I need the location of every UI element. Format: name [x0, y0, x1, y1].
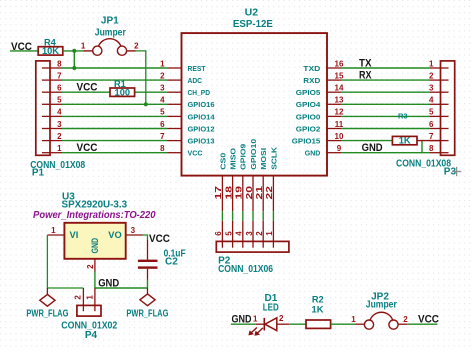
- svg-text:3: 3: [429, 84, 434, 93]
- svg-text:4: 4: [235, 231, 244, 236]
- svg-text:GPIO9: GPIO9: [239, 144, 248, 170]
- junction: [72, 66, 76, 70]
- svg-text:2: 2: [255, 231, 264, 236]
- wire: [94, 272, 96, 289]
- svg-text:GPIO13: GPIO13: [188, 137, 215, 146]
- svg-text:1K: 1K: [312, 304, 324, 314]
- P1 pin numbers: [57, 59, 62, 153]
- U2 right pins 16-9: [292, 59, 344, 157]
- svg-text:10K: 10K: [42, 46, 59, 56]
- svg-text:5: 5: [160, 108, 165, 117]
- wire: [62, 115, 167, 117]
- svg-text:Jumper: Jumper: [366, 299, 397, 310]
- wire: [421, 141, 423, 153]
- svg-text:GPIO12: GPIO12: [188, 124, 215, 133]
- svg-text:5: 5: [224, 231, 233, 236]
- svg-text:3: 3: [245, 231, 254, 236]
- wire: [252, 211, 254, 221]
- LED arrows: [248, 328, 263, 336]
- connector P3 reference: [396, 159, 456, 178]
- svg-text:VCC: VCC: [149, 233, 170, 245]
- svg-text:Jumper: Jumper: [95, 27, 126, 38]
- svg-text:2: 2: [57, 132, 62, 141]
- svg-text:VCC: VCC: [77, 142, 98, 154]
- svg-text:ADC: ADC: [188, 76, 203, 85]
- svg-text:CS0: CS0: [218, 153, 227, 170]
- svg-text:18: 18: [224, 185, 233, 199]
- svg-text:1: 1: [81, 42, 86, 51]
- U2 bottom pins 17-22: [214, 139, 278, 211]
- svg-text:5: 5: [429, 108, 434, 117]
- svg-text:VCC: VCC: [418, 313, 439, 325]
- wire: [341, 115, 429, 117]
- U2 left pins 1-8: [160, 59, 215, 157]
- wire: [407, 323, 437, 325]
- svg-text:2: 2: [279, 314, 284, 323]
- svg-text:TX: TX: [359, 57, 372, 69]
- svg-text:3: 3: [160, 84, 165, 93]
- wire: [341, 79, 429, 81]
- svg-text:SCLK: SCLK: [269, 147, 278, 170]
- svg-text:MOSI: MOSI: [259, 148, 268, 170]
- svg-text:8: 8: [57, 59, 62, 68]
- svg-text:11: 11: [335, 120, 344, 129]
- svg-text:9: 9: [337, 144, 342, 153]
- svg-text:CONN_01X06: CONN_01X06: [218, 264, 273, 275]
- wire: [62, 91, 110, 93]
- svg-text:1: 1: [429, 59, 434, 68]
- connector P2 reference: [218, 255, 273, 275]
- wire: [417, 140, 441, 142]
- connector P1: [36, 61, 62, 155]
- svg-text:2: 2: [74, 295, 83, 300]
- connector P2: [216, 221, 289, 252]
- svg-text:1: 1: [351, 315, 356, 324]
- svg-text:2: 2: [134, 42, 139, 51]
- resistor R2: [306, 294, 331, 328]
- resistor R4: [38, 37, 63, 56]
- svg-text:10: 10: [335, 132, 344, 141]
- svg-text:4: 4: [57, 108, 62, 117]
- svg-text:6: 6: [429, 120, 434, 129]
- P4 pin numbers: [74, 295, 95, 300]
- wire: [231, 323, 256, 325]
- svg-text:6: 6: [160, 120, 165, 129]
- wire: [242, 211, 244, 221]
- svg-text:4: 4: [429, 96, 434, 105]
- svg-text:MISO: MISO: [229, 148, 238, 170]
- svg-text:R2: R2: [312, 294, 324, 304]
- connector P1 reference: [30, 160, 85, 178]
- svg-text:3: 3: [57, 120, 62, 129]
- wire: [62, 128, 167, 130]
- U3 pin 2: [86, 259, 95, 272]
- P3 pin numbers: [429, 59, 434, 153]
- connector P3: [429, 61, 454, 155]
- svg-text:17: 17: [214, 185, 223, 199]
- svg-text:GND: GND: [305, 149, 321, 158]
- svg-text:12: 12: [335, 108, 344, 117]
- wire: [73, 51, 75, 68]
- svg-text:1K: 1K: [399, 136, 411, 146]
- svg-text:1: 1: [160, 59, 165, 68]
- svg-text:RX: RX: [359, 69, 372, 81]
- wire: [272, 211, 274, 221]
- svg-text:GPIO4: GPIO4: [296, 100, 321, 109]
- wire: [341, 103, 429, 105]
- svg-text:R3: R3: [398, 112, 408, 121]
- wire: [62, 103, 167, 105]
- svg-text:ESP-12E: ESP-12E: [233, 19, 273, 30]
- svg-text:16: 16: [335, 59, 344, 68]
- svg-text:8: 8: [429, 144, 434, 153]
- svg-text:20: 20: [245, 185, 254, 199]
- svg-text:7: 7: [160, 132, 165, 141]
- svg-text:CH_PD: CH_PD: [188, 88, 211, 97]
- svg-text:GPIO14: GPIO14: [188, 112, 216, 121]
- svg-text:4: 4: [160, 96, 165, 105]
- svg-text:15: 15: [335, 71, 344, 80]
- svg-text:GPIO15: GPIO15: [292, 137, 321, 146]
- svg-text:22: 22: [265, 185, 274, 199]
- power flag PWR_FLAG (left): [26, 288, 68, 319]
- svg-text:2: 2: [160, 71, 165, 80]
- svg-text:R1: R1: [114, 79, 126, 89]
- svg-text:P4: P4: [85, 330, 98, 341]
- resistor R3: [392, 112, 417, 146]
- svg-text:R4: R4: [44, 37, 57, 47]
- svg-text:JP1: JP1: [101, 16, 119, 27]
- svg-text:RXD: RXD: [303, 76, 320, 85]
- svg-text:21: 21: [255, 185, 264, 199]
- op IC U2 ESP-12E: [182, 8, 328, 176]
- power flag PWR_FLAG (right): [126, 288, 168, 319]
- svg-text:7: 7: [57, 71, 62, 80]
- svg-text:GND: GND: [98, 277, 119, 289]
- svg-text:GPIO2: GPIO2: [296, 124, 321, 133]
- wire: [341, 152, 429, 154]
- P2 pin numbers: [214, 231, 274, 236]
- svg-text:6: 6: [214, 231, 223, 236]
- wire: [331, 323, 356, 325]
- svg-text:8: 8: [160, 144, 165, 153]
- svg-text:1: 1: [57, 144, 62, 153]
- wire: [62, 152, 167, 154]
- wire: [135, 91, 168, 93]
- svg-text:1: 1: [253, 314, 258, 323]
- connector P4: [77, 288, 101, 316]
- wire: [289, 323, 306, 325]
- U3 pin 1: [47, 226, 64, 235]
- svg-text:U2: U2: [245, 8, 259, 19]
- svg-text:P1: P1: [32, 168, 45, 179]
- svg-text:13: 13: [335, 96, 344, 105]
- svg-text:VCC: VCC: [188, 149, 203, 158]
- svg-text:GPIO5: GPIO5: [296, 88, 321, 97]
- wire: [82, 288, 84, 305]
- wire: [341, 140, 392, 142]
- LED D1: [248, 293, 289, 336]
- svg-text:REST: REST: [188, 64, 206, 73]
- wire: [62, 140, 167, 142]
- svg-text:C2: C2: [165, 257, 178, 268]
- wire: [47, 235, 83, 288]
- wire: [341, 67, 429, 69]
- svg-text:1: 1: [265, 231, 274, 236]
- svg-text:GPIO10: GPIO10: [249, 139, 258, 170]
- wire: [95, 287, 148, 289]
- svg-text:GND: GND: [362, 142, 383, 154]
- svg-text:5: 5: [57, 96, 62, 105]
- svg-text:PWR_FLAG: PWR_FLAG: [26, 308, 68, 319]
- svg-text:VO: VO: [108, 230, 121, 240]
- svg-text:VCC: VCC: [77, 81, 98, 93]
- svg-text:3: 3: [131, 226, 136, 235]
- svg-text:LED: LED: [263, 303, 279, 314]
- regulator U3 SPX2920U-3.3: [33, 191, 156, 258]
- svg-text:1: 1: [86, 295, 95, 300]
- junction: [72, 49, 76, 53]
- wire: [62, 67, 167, 69]
- svg-text:1: 1: [51, 226, 56, 235]
- wire: [136, 51, 146, 104]
- junction: [144, 102, 148, 106]
- connector P4 reference: [61, 321, 117, 341]
- svg-text:19: 19: [235, 185, 244, 199]
- svg-text:PWR_FLAG: PWR_FLAG: [126, 308, 168, 319]
- wire: [147, 280, 149, 289]
- jumper JP1: [81, 16, 139, 56]
- svg-text:2: 2: [86, 264, 95, 269]
- svg-text:14: 14: [335, 84, 344, 93]
- wire: [262, 211, 264, 221]
- U3 pin 3: [126, 226, 143, 235]
- svg-text:2: 2: [429, 71, 434, 80]
- svg-text:2: 2: [403, 315, 408, 324]
- svg-text:GPIO16: GPIO16: [188, 100, 215, 109]
- cursor cross: [452, 167, 461, 176]
- wire: [143, 235, 148, 240]
- wire: [62, 79, 167, 81]
- resistor R1: [110, 79, 135, 97]
- wire: [341, 91, 429, 93]
- svg-text:GND: GND: [90, 238, 100, 254]
- wire: [63, 50, 84, 52]
- svg-text:GPIO0: GPIO0: [296, 112, 321, 121]
- wire: [221, 211, 223, 221]
- svg-text:Power_Integrations:TO-220: Power_Integrations:TO-220: [33, 210, 156, 221]
- svg-text:7: 7: [429, 132, 434, 141]
- svg-text:VI: VI: [70, 230, 79, 240]
- svg-text:TXD: TXD: [303, 64, 320, 73]
- wire: [232, 211, 234, 221]
- wire: [341, 128, 429, 130]
- svg-text:6: 6: [57, 84, 62, 93]
- wire: [10, 50, 38, 52]
- capacitor C2: [138, 240, 186, 280]
- jumper JP2: [351, 291, 408, 329]
